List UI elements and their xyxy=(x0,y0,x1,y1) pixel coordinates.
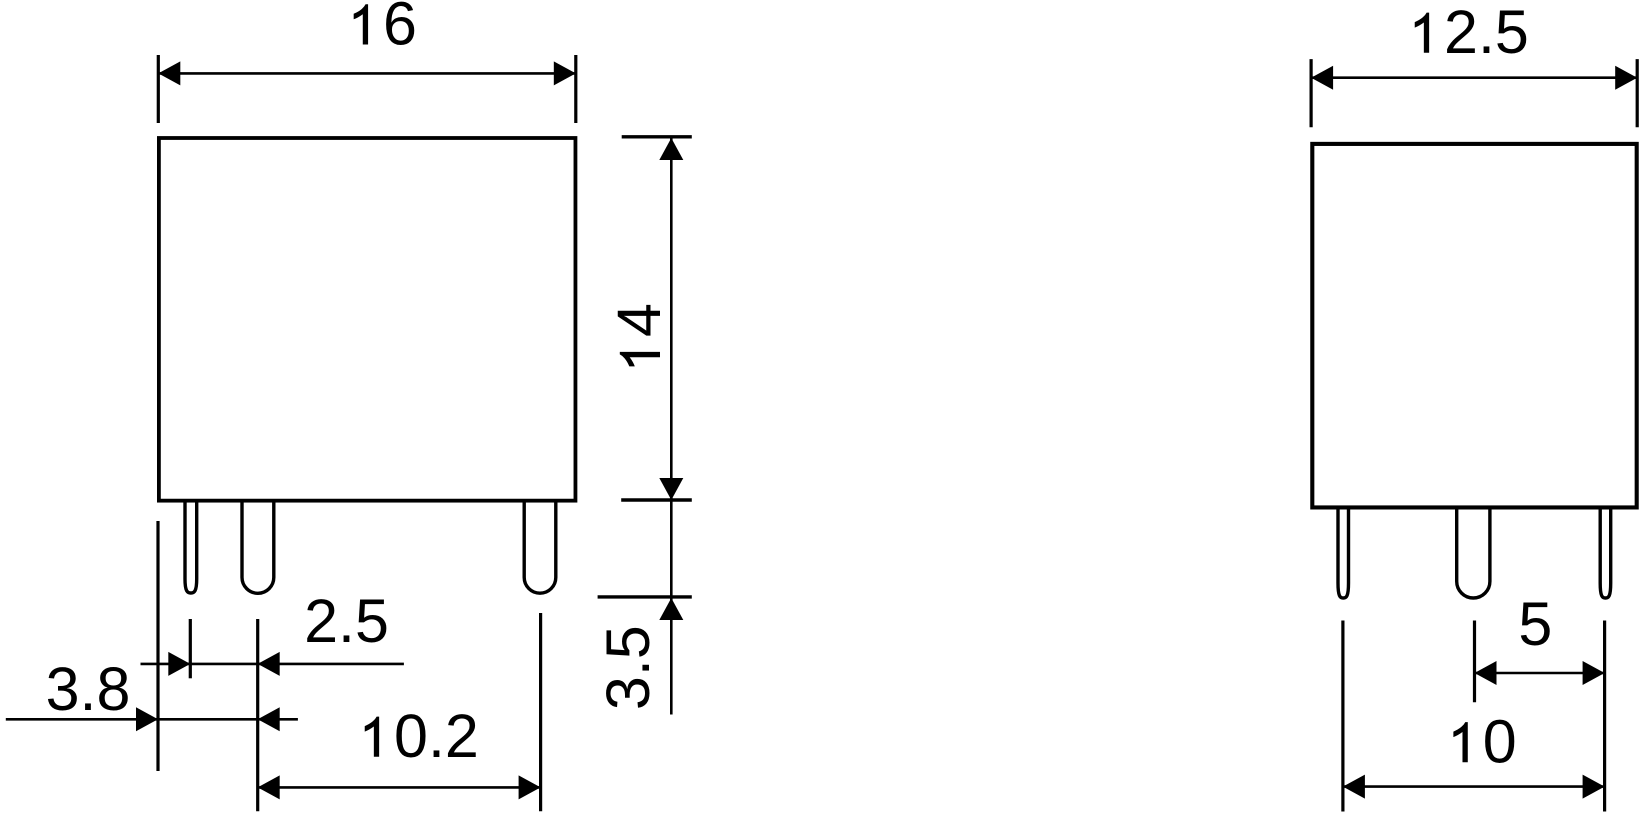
pin A side view (thin left pin) xyxy=(1338,508,1349,598)
dimension 2.5: arrowhead pointing left at pin2 line xyxy=(258,652,280,676)
dimension 14 / 3.5: vertical dimension line xyxy=(670,138,673,715)
pin B side view (wide middle pin) xyxy=(1457,508,1490,598)
dimension 10.2: arrowhead right xyxy=(519,775,541,799)
bottom dims: extension line at left box edge xyxy=(156,521,159,771)
svg-text:3.8: 3.8 xyxy=(46,655,131,723)
label 10.2 xyxy=(365,702,479,770)
dimension 10.2: arrowhead left xyxy=(258,775,280,799)
dimension 16: dimension line xyxy=(158,72,576,75)
dimension 3.8: dimension line xyxy=(6,718,298,721)
svg-text:3.5: 3.5 xyxy=(594,625,662,710)
bottom dims side view: extension line pin B xyxy=(1473,621,1476,703)
svg-text:5: 5 xyxy=(1518,590,1552,658)
label 12.5 xyxy=(1415,0,1529,66)
dimension 16: extension line right xyxy=(574,55,577,123)
svg-text:6: 6 xyxy=(383,0,417,58)
svg-text:2.5: 2.5 xyxy=(304,587,389,655)
dimension 16: extension line left xyxy=(157,55,160,123)
dimension 12.5: arrowhead left xyxy=(1311,66,1333,90)
bottom dims side view: extension line pin A xyxy=(1341,621,1344,812)
svg-text:4: 4 xyxy=(605,303,673,337)
dimension 12.5: arrowhead right xyxy=(1615,66,1637,90)
bottom dims side view: extension line pin C xyxy=(1603,621,1606,812)
label 10 xyxy=(1453,707,1516,775)
relay body side view outline xyxy=(1312,144,1636,508)
pin C side view (thin right pin) xyxy=(1600,508,1611,598)
dimension 14: arrowhead down xyxy=(659,478,683,500)
label 14 (rotated) xyxy=(605,303,673,366)
pin 2 front view (wide coil pin) xyxy=(242,502,274,593)
svg-text:2.5: 2.5 xyxy=(1444,0,1529,66)
dimension 12.5: extension line right xyxy=(1636,59,1639,127)
dimension 16: arrowhead left xyxy=(158,61,180,85)
pin 3 front view (wide right pin) xyxy=(524,502,556,593)
dimension 14: arrowhead up xyxy=(659,138,683,160)
dimension 5: arrowhead right xyxy=(1583,661,1605,685)
dimension 5: arrowhead left xyxy=(1475,661,1497,685)
dimension 3.8: arrowhead pointing left at pin2 line xyxy=(258,707,280,731)
dimension 10: dimension line xyxy=(1343,785,1605,788)
label 16 xyxy=(354,0,417,58)
dimension 10: arrowhead left xyxy=(1343,775,1365,799)
relay body front view outline xyxy=(159,138,576,501)
dimension 16: arrowhead right xyxy=(554,61,576,85)
dimension 14: tick bottom xyxy=(621,498,692,501)
pin 1 front view (thin left pin) xyxy=(185,502,197,593)
bottom dims: extension line at pin3 centre xyxy=(539,613,542,811)
svg-text:0: 0 xyxy=(1483,707,1517,775)
bottom dims: tick at pin1 centre xyxy=(189,619,192,678)
dimension 14: tick top xyxy=(622,135,692,138)
bottom dims: extension line at pin2 centre xyxy=(256,619,259,811)
dimension 5: dimension line xyxy=(1475,672,1605,675)
dimension 12.5: extension line left xyxy=(1309,59,1312,127)
dimension 2.5: dimension line xyxy=(141,663,404,666)
svg-text:0.2: 0.2 xyxy=(394,702,479,770)
dimension 12.5: dimension line xyxy=(1311,76,1637,79)
dimension 3.5: tick bottom xyxy=(598,595,692,598)
dimension 2.5: arrowhead pointing right at pin1 tick xyxy=(168,652,190,676)
dimension 3.8: arrowhead pointing right at left extension xyxy=(136,707,158,731)
dimension 10: arrowhead right xyxy=(1583,775,1605,799)
dimension 3.5: arrowhead up (below tick) xyxy=(659,598,683,620)
dimension 10.2: dimension line xyxy=(258,786,541,789)
